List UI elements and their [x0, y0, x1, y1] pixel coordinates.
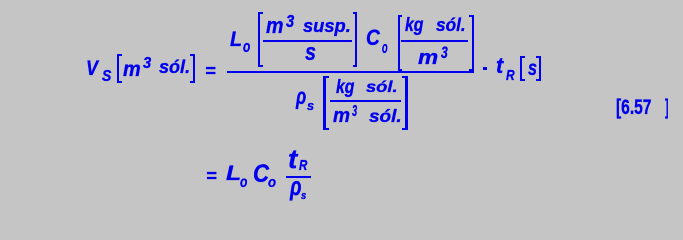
bracket bsl — [520, 56, 525, 81]
sol2 — [436, 16, 466, 35]
V — [86, 59, 98, 80]
dot — [483, 67, 487, 71]
barmain — [227, 71, 474, 73]
bracket bsr — [536, 56, 541, 81]
m1 — [123, 59, 141, 80]
kg2 — [405, 16, 423, 35]
t2 — [288, 146, 297, 172]
s32 — [286, 13, 294, 31]
s33 — [441, 45, 448, 61]
bracket bn1r — [353, 12, 357, 67]
eq657b — [665, 98, 668, 119]
bracket bn2l — [398, 15, 403, 70]
barn1 — [263, 40, 352, 42]
C2 — [253, 162, 269, 187]
Lo1 — [243, 39, 250, 56]
bard — [330, 100, 401, 102]
rho2 — [290, 175, 301, 201]
susp — [303, 18, 351, 37]
R1 — [506, 68, 515, 83]
eq657a — [616, 98, 651, 119]
kgd — [336, 78, 354, 97]
S — [102, 69, 111, 85]
md — [333, 106, 350, 126]
eq1 — [205, 62, 216, 80]
L2 — [226, 163, 241, 185]
s34 — [352, 104, 357, 120]
barn2 — [401, 40, 469, 42]
Lo2 — [240, 175, 247, 190]
bracket bn1l — [258, 12, 263, 67]
sden — [305, 42, 316, 66]
tR — [496, 55, 503, 77]
bracket bn2r — [469, 15, 474, 71]
s31 — [143, 56, 151, 72]
rho1 — [296, 85, 306, 108]
bracket bv2 — [190, 54, 195, 83]
m3n2 — [418, 48, 438, 69]
eq2 — [206, 167, 217, 185]
R2 — [299, 159, 307, 174]
rs2 — [301, 191, 306, 202]
Co2 — [268, 176, 276, 191]
L1 — [230, 29, 242, 50]
rs1 — [307, 99, 314, 112]
Co1 — [382, 39, 388, 56]
sold — [366, 80, 398, 95]
sU — [528, 59, 537, 80]
bracket bv1 — [117, 54, 122, 83]
bracket bdl — [323, 76, 329, 130]
C1 — [366, 27, 380, 50]
m2 — [266, 15, 283, 37]
sol1 — [159, 59, 190, 78]
bracket bdr — [402, 76, 408, 130]
bar2 — [286, 176, 312, 178]
soldd — [369, 108, 402, 126]
